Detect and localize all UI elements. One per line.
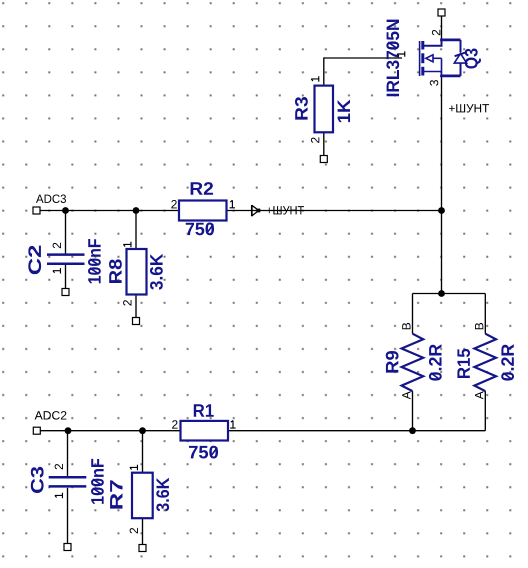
wire drain top terminal to Q3 [441, 16, 443, 40]
pin 1 R2 [230, 200, 235, 208]
wire main ADC3 horizontal [40, 210, 442, 212]
pin 1 R1 [230, 421, 235, 429]
capacitor C2 plates [47, 253, 85, 256]
wire R15 top stub [484, 294, 486, 334]
power port arrow +SHUNT [252, 205, 260, 216]
value 0.2R (R15) [501, 344, 514, 380]
wire C3 pin2 [67, 431, 69, 476]
port terminal ADC2 [33, 427, 40, 434]
pin 1 R3 [311, 76, 319, 81]
transistor Q3 MOSFET symbol [420, 40, 467, 77]
pin 1 C2 [53, 268, 61, 273]
resistor R8 body [127, 249, 147, 295]
resistor R2 body [179, 201, 227, 221]
value 1K (R3) [338, 100, 350, 123]
wire R3 pin2 to terminal [323, 132, 325, 155]
port terminal ADC3 [33, 207, 40, 214]
value IRL3705N (Q3) [386, 20, 399, 97]
pin B R15 [475, 323, 483, 329]
net label ADC2 [35, 411, 67, 420]
wire Q3 source down to node [441, 77, 443, 294]
pin A R9 [402, 391, 410, 399]
pin 2 R3 [311, 137, 319, 143]
wire main ADC2 horizontal [40, 430, 485, 432]
junction network top [438, 290, 445, 297]
pin 1 C3 [55, 493, 63, 498]
pin 1 Q3 gate [397, 51, 405, 56]
designator R9 [386, 351, 399, 373]
pin A R15 [475, 391, 483, 399]
wire shunt network top [413, 293, 486, 295]
value 100nF (C2) [88, 239, 101, 283]
junction C2/ADC3 [62, 207, 69, 214]
wire R9 top stub [412, 294, 414, 334]
junction R7 [139, 427, 146, 434]
capacitor C3 plates [49, 476, 87, 479]
value 3.6K (R7) [156, 478, 169, 512]
wire R3 pin1 to Q3 gate [324, 58, 402, 86]
pin 1 R8 [123, 242, 131, 247]
wire R7 pin2 to terminal [142, 518, 144, 544]
wire R8 pin2 to terminal [135, 295, 137, 319]
pin 1 R7 [130, 465, 138, 470]
designator R1 [194, 404, 214, 416]
port terminal C2 bottom [62, 289, 69, 296]
resistor R7 body [132, 473, 153, 519]
pin 2 R8 [123, 300, 131, 306]
net label +SHUNT on wire [267, 206, 304, 214]
wire C2 pin1 to terminal [65, 265, 67, 289]
value 0.2R (R9) [429, 344, 442, 380]
wire R15 bottom stub [484, 391, 486, 431]
wire C2 pin2 [65, 211, 67, 254]
value 750 (R2) [186, 223, 214, 236]
wire C3 pin1 to terminal [67, 488, 69, 544]
resistor R15 zigzag [474, 334, 496, 391]
value 100nF (C3) [91, 459, 104, 504]
designator R2 [191, 182, 213, 195]
pin 2 R2 [171, 200, 177, 208]
net label ADC3 [36, 194, 66, 203]
value 750 (R1) [189, 446, 218, 459]
pin B R9 [402, 323, 410, 329]
pin 2 R1 [172, 420, 178, 428]
pin 2 Q3 drain [432, 30, 440, 36]
designator R8 [109, 259, 122, 283]
designator R7 [110, 480, 122, 508]
value 3.6K (R8) [150, 254, 163, 290]
port terminal R8 bottom [133, 318, 140, 325]
junction shunt wire [438, 207, 445, 214]
designator C3 [31, 467, 44, 493]
junction network bottom [409, 427, 416, 434]
designator R3 [295, 97, 308, 120]
port terminal C3 bottom [64, 544, 71, 551]
net label +SHUNT upper [449, 104, 489, 112]
junction R8 [133, 207, 140, 214]
resistor R3 body [315, 86, 334, 133]
resistor R9 zigzag [402, 334, 424, 391]
pin 2 R7 [130, 528, 138, 534]
port terminal drain top [438, 9, 445, 16]
resistor R1 body [181, 421, 229, 441]
wire R7 pin1 [142, 431, 144, 473]
junction C3/ADC2 [65, 427, 72, 434]
port terminal R3 bottom [320, 156, 327, 163]
designator Q3 [465, 49, 481, 69]
designator C2 [28, 246, 41, 275]
wire R8 pin1 [135, 211, 137, 250]
pin 2 C2 [53, 243, 61, 249]
pin 3 Q3 source [430, 80, 439, 86]
pin 2 C3 [55, 464, 63, 470]
designator R15 [457, 349, 470, 378]
wire R9 bottom stub [412, 391, 414, 431]
port terminal R7 bottom [139, 545, 146, 552]
